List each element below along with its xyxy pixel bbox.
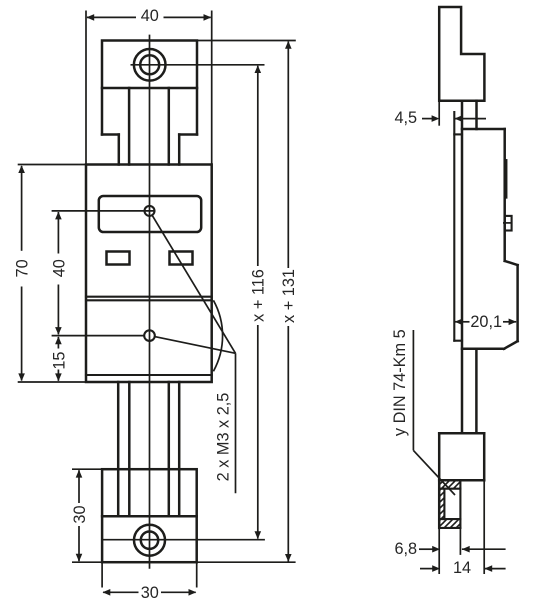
dimension 30 (left, bottom block height) [71, 470, 89, 562]
leader from lower screw hole [155, 337, 236, 354]
svg-text:30: 30 [141, 584, 159, 601]
countersink bushing hatched section [439, 480, 460, 528]
mounting plate edge-on [453, 112, 455, 341]
plate small top cap [454, 133, 462, 135]
side view neck left edge + body left edge (continuous) [461, 101, 464, 434]
svg-text:40: 40 [141, 7, 159, 25]
label leader stem [412, 330, 414, 450]
main body outline [86, 165, 212, 383]
dimension 14 [420, 559, 506, 577]
right leg under top block [169, 88, 197, 165]
extension lines for bottom 30 dim [101, 562, 103, 587]
side body right step slant [505, 261, 518, 265]
side body right edge lower [516, 265, 519, 341]
svg-text:40: 40 [50, 259, 68, 277]
svg-text:6,8: 6,8 [394, 540, 417, 558]
swing radius arc [213, 300, 222, 371]
svg-text:70: 70 [14, 259, 32, 277]
lower screw hole centerline / extension for 40+15 dims [52, 335, 145, 337]
DIN rail clip nub [505, 216, 512, 231]
top hole inner circle [140, 55, 159, 74]
svg-text:20,1: 20,1 [470, 313, 502, 331]
label leader diagonal into countersink [413, 450, 455, 495]
bottom hole inner circle [141, 532, 158, 549]
small rectangle left [107, 252, 130, 265]
svg-text:2 x M3 x 2,5: 2 x M3 x 2,5 [215, 393, 233, 482]
display window rounded rect [99, 196, 201, 232]
dimension 4,5 [394, 109, 486, 127]
body mid separation double line [86, 296, 212, 298]
dimension 40 (vertical, hole spacing) [50, 212, 68, 335]
svg-text:30: 30 [71, 505, 89, 523]
extension lines for 70 dim [18, 164, 86, 166]
dimension 20,1 [455, 313, 517, 331]
dimension 15 [50, 336, 68, 381]
dimension 6,8 [394, 540, 505, 558]
upper screw hole centerline / extension for 40 dim [52, 210, 156, 212]
svg-text:y DIN 74-Km 5: y DIN 74-Km 5 [391, 329, 409, 436]
side body edge detail line [505, 160, 507, 198]
extension line right (body right edge extended up for 40 dim) [211, 11, 213, 165]
upper screw hole [145, 206, 155, 216]
svg-text:15: 15 [50, 352, 68, 370]
extension of bottom block bottom edge for x+131 [197, 561, 296, 563]
side view neck right edge (upper) [475, 101, 478, 129]
side view lower neck right edge [475, 349, 478, 434]
svg-text:14: 14 [453, 559, 471, 577]
leader from upper screw hole [152, 215, 235, 353]
dimension 70 [14, 165, 32, 381]
side view bottom block [439, 432, 484, 435]
extension of block top edge for x+131 [197, 40, 296, 42]
side body bottom edge [462, 348, 504, 351]
svg-text:4,5: 4,5 [394, 109, 417, 127]
side view top block outline [439, 7, 484, 101]
legs between body and bottom block [117, 382, 120, 516]
dimension x + 116 [250, 65, 268, 539]
side body right edge upper [503, 129, 506, 261]
top hole horizontal centerline / extension for x+116 [131, 64, 265, 66]
extension lines for left 30 dim [72, 468, 102, 470]
bottom hole outer circle [134, 525, 165, 556]
extension lines bottom of side view [438, 528, 440, 574]
side body bottom chamfer [504, 341, 518, 349]
bottom block inner line [102, 515, 197, 518]
top hole outer circle [134, 49, 166, 81]
lower screw hole [144, 330, 155, 341]
label 2 x M3 x 2,5 leader stem [235, 353, 237, 493]
dimension x + 131 [280, 41, 298, 562]
dimension 40 (top width) [86, 7, 211, 25]
small rectangle right [170, 252, 193, 265]
extension line for 4,5 dim (block left edge extended) [438, 101, 440, 126]
dimension 30 (bottom width) [103, 584, 197, 601]
svg-text:x + 131: x + 131 [280, 269, 298, 323]
left leg under top block [102, 88, 129, 165]
plate bottom cap [454, 340, 462, 342]
front view vertical centerline [149, 35, 151, 569]
bottom block [102, 469, 197, 562]
bottom hole horizontal centerline / extension for x+116 [102, 539, 265, 541]
body lower inner line [86, 374, 212, 376]
side body (DIN housing) top edge [462, 128, 505, 131]
extension line left (body left edge extended up for 40 dim) [85, 11, 87, 165]
top mounting block [102, 41, 197, 89]
svg-text:x + 116: x + 116 [250, 269, 268, 322]
